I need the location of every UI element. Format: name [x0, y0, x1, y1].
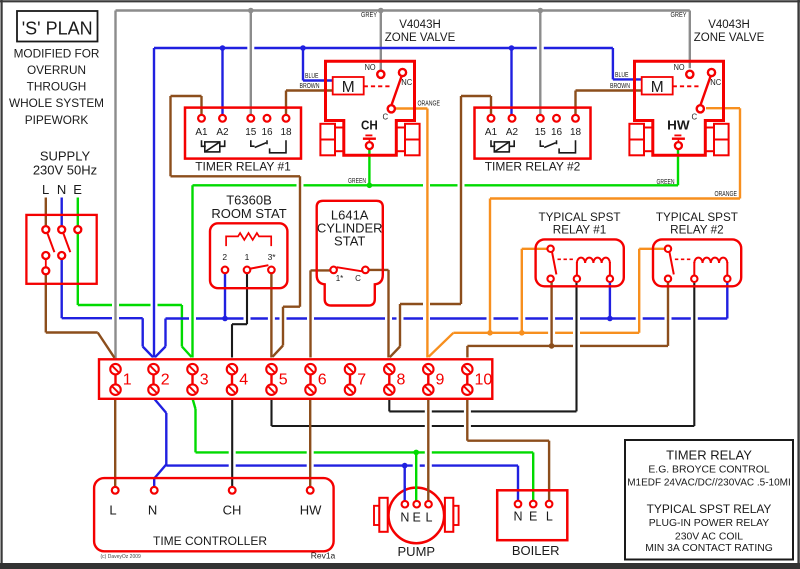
svg-text:Rev1a: Rev1a — [311, 551, 336, 561]
label GREEN 2 — [657, 177, 675, 186]
svg-text:BOILER: BOILER — [512, 543, 560, 558]
label GREY 2 — [671, 10, 687, 19]
svg-text:BROWN: BROWN — [610, 81, 630, 90]
svg-text:BLUE: BLUE — [615, 70, 629, 79]
room stat T6360B — [210, 193, 287, 289]
wire brown cylinder stat C to terminal 8 — [369, 270, 389, 358]
label BROWN 1 — [300, 81, 320, 90]
zone valve 2 (HW) — [629, 61, 728, 155]
wire brown cylinder stat 1 star to terminal 6 — [311, 270, 331, 357]
svg-text:TIMER RELAY #1: TIMER RELAY #1 — [195, 160, 291, 174]
svg-text:3: 3 — [200, 371, 209, 388]
svg-text:ZONE VALVE: ZONE VALVE — [694, 32, 765, 44]
svg-text:BROWN: BROWN — [300, 81, 320, 90]
wire orange zone valve 2 C loop down — [490, 108, 740, 333]
zone valve 1 (CH) — [320, 61, 419, 155]
wire brown timer relay 1 A1 loop to terminal 5 — [171, 96, 301, 357]
wire brown terminal 10 to boiler L — [467, 399, 549, 502]
node green junction — [367, 183, 373, 189]
wire brown terminal 6 to controller HW — [309, 399, 311, 491]
label copyright — [101, 554, 142, 560]
svg-text:'S' PLAN: 'S' PLAN — [22, 19, 93, 39]
cylinder stat L641A — [317, 201, 383, 306]
node grey junctions on top run — [248, 8, 543, 14]
wire blue top bus from terminal 2 to zone valve motors — [154, 48, 642, 358]
svg-text:RELAY #1: RELAY #1 — [553, 224, 607, 237]
svg-text:TIMER RELAY #2: TIMER RELAY #2 — [485, 160, 581, 174]
svg-text:6: 6 — [318, 371, 327, 388]
svg-text:ORANGE: ORANGE — [418, 99, 441, 108]
svg-text:M: M — [342, 79, 355, 96]
wire green terminal 3 to pump E and boiler E — [193, 399, 534, 502]
wire blue branch to zone valve 1 motor — [303, 48, 333, 81]
wire grey riser to zone valve 1 NO — [380, 11, 382, 72]
wire blue room stat 2 down to bus — [224, 273, 226, 318]
svg-text:C: C — [691, 113, 697, 122]
wire blue supply N stub — [61, 198, 63, 227]
supply isolator switch — [26, 215, 96, 284]
svg-text:M: M — [651, 79, 664, 96]
wire black terminal 4 to controller CH — [231, 399, 233, 491]
label revision — [311, 551, 336, 561]
timer relay 2 — [475, 108, 591, 174]
wire brown terminal 9 to pump L — [427, 399, 429, 502]
svg-text:1: 1 — [123, 371, 132, 388]
title note text — [9, 46, 104, 126]
wire blue branch to pump N — [404, 466, 406, 501]
svg-text:SUPPLY: SUPPLY — [40, 148, 91, 163]
SPST relay 2 — [653, 211, 741, 286]
svg-text:N: N — [400, 510, 409, 524]
wire green branch to pump E — [415, 452, 417, 501]
wire blue SPST relay 1 to bus — [609, 282, 611, 319]
svg-text:TYPICAL SPST: TYPICAL SPST — [538, 211, 620, 224]
svg-text:GREY: GREY — [671, 10, 687, 19]
wire green zone valve 1 earth drop — [368, 149, 370, 185]
svg-text:N: N — [57, 182, 66, 197]
svg-text:A2: A2 — [216, 127, 229, 138]
svg-text:GREY: GREY — [361, 10, 377, 19]
svg-text:2: 2 — [161, 371, 170, 388]
label BLUE 2 — [615, 70, 629, 79]
svg-text:TIMER RELAY: TIMER RELAY — [666, 448, 752, 463]
pump — [374, 486, 459, 559]
wire blue terminal 2 to controller N and boiler N — [154, 399, 518, 502]
svg-text:2: 2 — [222, 252, 227, 262]
svg-text:230V AC COIL: 230V AC COIL — [675, 532, 743, 543]
svg-text:CH: CH — [223, 502, 242, 517]
label zone valve 2 — [694, 19, 765, 44]
label ORANGE 1 — [418, 99, 441, 108]
wire brown timer relay 1 18 to motor 1 — [286, 91, 333, 116]
svg-text:WHOLE SYSTEM: WHOLE SYSTEM — [9, 96, 104, 110]
svg-text:TYPICAL SPST RELAY: TYPICAL SPST RELAY — [647, 502, 772, 516]
svg-text:CH: CH — [361, 118, 378, 133]
svg-text:NC: NC — [401, 78, 412, 87]
svg-text:15: 15 — [245, 127, 257, 138]
label BROWN 2 — [610, 81, 630, 90]
label BLUE 1 — [305, 71, 319, 80]
svg-text:L: L — [426, 510, 433, 524]
svg-text:E: E — [73, 182, 82, 197]
svg-text:5: 5 — [279, 371, 288, 388]
svg-text:RELAY #2: RELAY #2 — [670, 224, 724, 237]
wire black room stat 1 to terminal 4 — [232, 273, 247, 357]
svg-text:NC: NC — [710, 78, 721, 87]
svg-text:ZONE VALVE: ZONE VALVE — [385, 32, 456, 44]
svg-text:V4043H: V4043H — [399, 19, 441, 31]
svg-text:4: 4 — [239, 371, 248, 388]
node green pump junction — [413, 450, 419, 456]
label ORANGE 2 — [715, 189, 738, 198]
svg-text:18: 18 — [280, 127, 292, 138]
info box timer relay / SPST relay notes — [625, 440, 793, 560]
node orange junctions — [487, 330, 524, 336]
svg-text:1*: 1* — [336, 274, 344, 283]
svg-text:OVERRUN: OVERRUN — [27, 63, 86, 77]
wire green earth bus — [193, 149, 679, 357]
time controller — [94, 478, 334, 551]
timer relay 1 — [185, 108, 301, 174]
svg-text:PLUG-IN POWER RELAY: PLUG-IN POWER RELAY — [649, 518, 770, 529]
wire blue supply N to terminal 2 — [62, 259, 153, 358]
wire grey riser to timer relay 2 terminal 15 — [539, 11, 541, 116]
label zone valve 1 — [385, 19, 456, 44]
terminal strip 1-10 — [99, 359, 492, 399]
supply label — [33, 148, 97, 197]
svg-text:L: L — [109, 502, 116, 517]
label GREEN 1 — [348, 176, 366, 185]
svg-text:E.G. BROYCE CONTROL: E.G. BROYCE CONTROL — [648, 464, 769, 475]
svg-text:N: N — [513, 510, 522, 524]
svg-text:THROUGH: THROUGH — [27, 80, 87, 94]
wire brown SPST relay bus to terminal 10 — [467, 282, 668, 358]
svg-text:(c) DaveyOz 2009: (c) DaveyOz 2009 — [101, 554, 142, 560]
wire brown supply L to terminal 1 — [46, 274, 115, 358]
svg-text:GREEN: GREEN — [657, 177, 675, 186]
boiler — [497, 490, 567, 558]
svg-text:A1: A1 — [195, 127, 208, 138]
svg-text:E: E — [413, 510, 421, 524]
svg-text:1: 1 — [245, 252, 250, 262]
svg-text:BLUE: BLUE — [305, 71, 319, 80]
svg-text:MIN 3A CONTACT RATING: MIN 3A CONTACT RATING — [645, 543, 773, 554]
wire brown supply L stub — [45, 198, 47, 227]
SPST relay 1 — [536, 211, 624, 286]
wire blue branch to timer relay 1 A2 — [221, 48, 223, 115]
svg-text:L: L — [42, 182, 49, 197]
svg-text:C: C — [382, 113, 388, 122]
node blue junctions top bus — [220, 45, 515, 51]
svg-text:MODIFIED FOR: MODIFIED FOR — [14, 46, 100, 60]
svg-text:E: E — [529, 510, 537, 524]
svg-text:A1: A1 — [485, 127, 498, 138]
svg-text:TIME CONTROLLER: TIME CONTROLLER — [153, 534, 267, 548]
svg-text:3*: 3* — [268, 252, 277, 262]
wire grey: terminal 1 up and across top to zone valves — [116, 11, 690, 360]
wire orange branch to SPST relay 1 — [522, 249, 548, 333]
svg-text:NO: NO — [365, 63, 376, 72]
svg-text:L: L — [546, 510, 553, 524]
svg-text:15: 15 — [535, 127, 547, 138]
svg-text:N: N — [148, 502, 157, 517]
svg-text:18: 18 — [570, 127, 582, 138]
svg-text:TYPICAL SPST: TYPICAL SPST — [656, 211, 738, 224]
wire blue mid bus (room stat / relays) — [155, 282, 727, 357]
wire orange zone valve 1 C to terminal 9 — [395, 109, 427, 358]
svg-text:10: 10 — [475, 371, 493, 388]
node blue mid bus junctions — [222, 316, 613, 322]
svg-text:PIPEWORK: PIPEWORK — [25, 113, 89, 127]
svg-text:PUMP: PUMP — [398, 544, 436, 559]
wire brown timer relay 2 A1 loop to terminal 8 — [390, 96, 491, 357]
node blue pump junction — [402, 463, 408, 469]
label GREY 1 — [361, 10, 377, 19]
svg-text:16: 16 — [551, 127, 563, 138]
wire grey riser to timer relay 1 terminal 15 — [250, 11, 252, 116]
svg-text:HW: HW — [667, 118, 690, 133]
wire brown room stat 3 star to terminal 5 — [270, 273, 272, 357]
wire green supply E through — [78, 198, 192, 358]
svg-text:ORANGE: ORANGE — [715, 189, 738, 198]
svg-text:16: 16 — [261, 127, 273, 138]
svg-text:NO: NO — [674, 63, 685, 72]
svg-text:STAT: STAT — [334, 233, 365, 248]
svg-text:8: 8 — [397, 371, 406, 388]
svg-text:GREEN: GREEN — [348, 176, 366, 185]
wire orange relay bus — [429, 249, 665, 357]
svg-text:7: 7 — [357, 371, 366, 388]
svg-text:A2: A2 — [506, 127, 519, 138]
wire black terminal 8 to SPST relay 1 — [389, 282, 576, 411]
svg-text:230V 50Hz: 230V 50Hz — [33, 163, 97, 178]
wire brown terminal 1 to controller L — [114, 399, 116, 491]
svg-text:C: C — [355, 274, 361, 283]
svg-text:M1EDF 24VAC/DC//230VAC .5-10MI: M1EDF 24VAC/DC//230VAC .5-10MI — [627, 477, 791, 488]
wire blue branch to timer relay 2 A2 — [510, 48, 512, 115]
title box 'S' PLAN — [17, 11, 98, 42]
svg-text:ROOM STAT: ROOM STAT — [211, 206, 286, 221]
wire black terminal 5 to SPST relay 2 — [272, 282, 695, 426]
wire brown timer relay 2 18 to motor 2 — [576, 91, 642, 116]
svg-text:V4043H: V4043H — [708, 19, 750, 31]
svg-text:9: 9 — [436, 371, 445, 388]
svg-text:HW: HW — [300, 502, 322, 517]
node brown junction — [549, 343, 555, 349]
